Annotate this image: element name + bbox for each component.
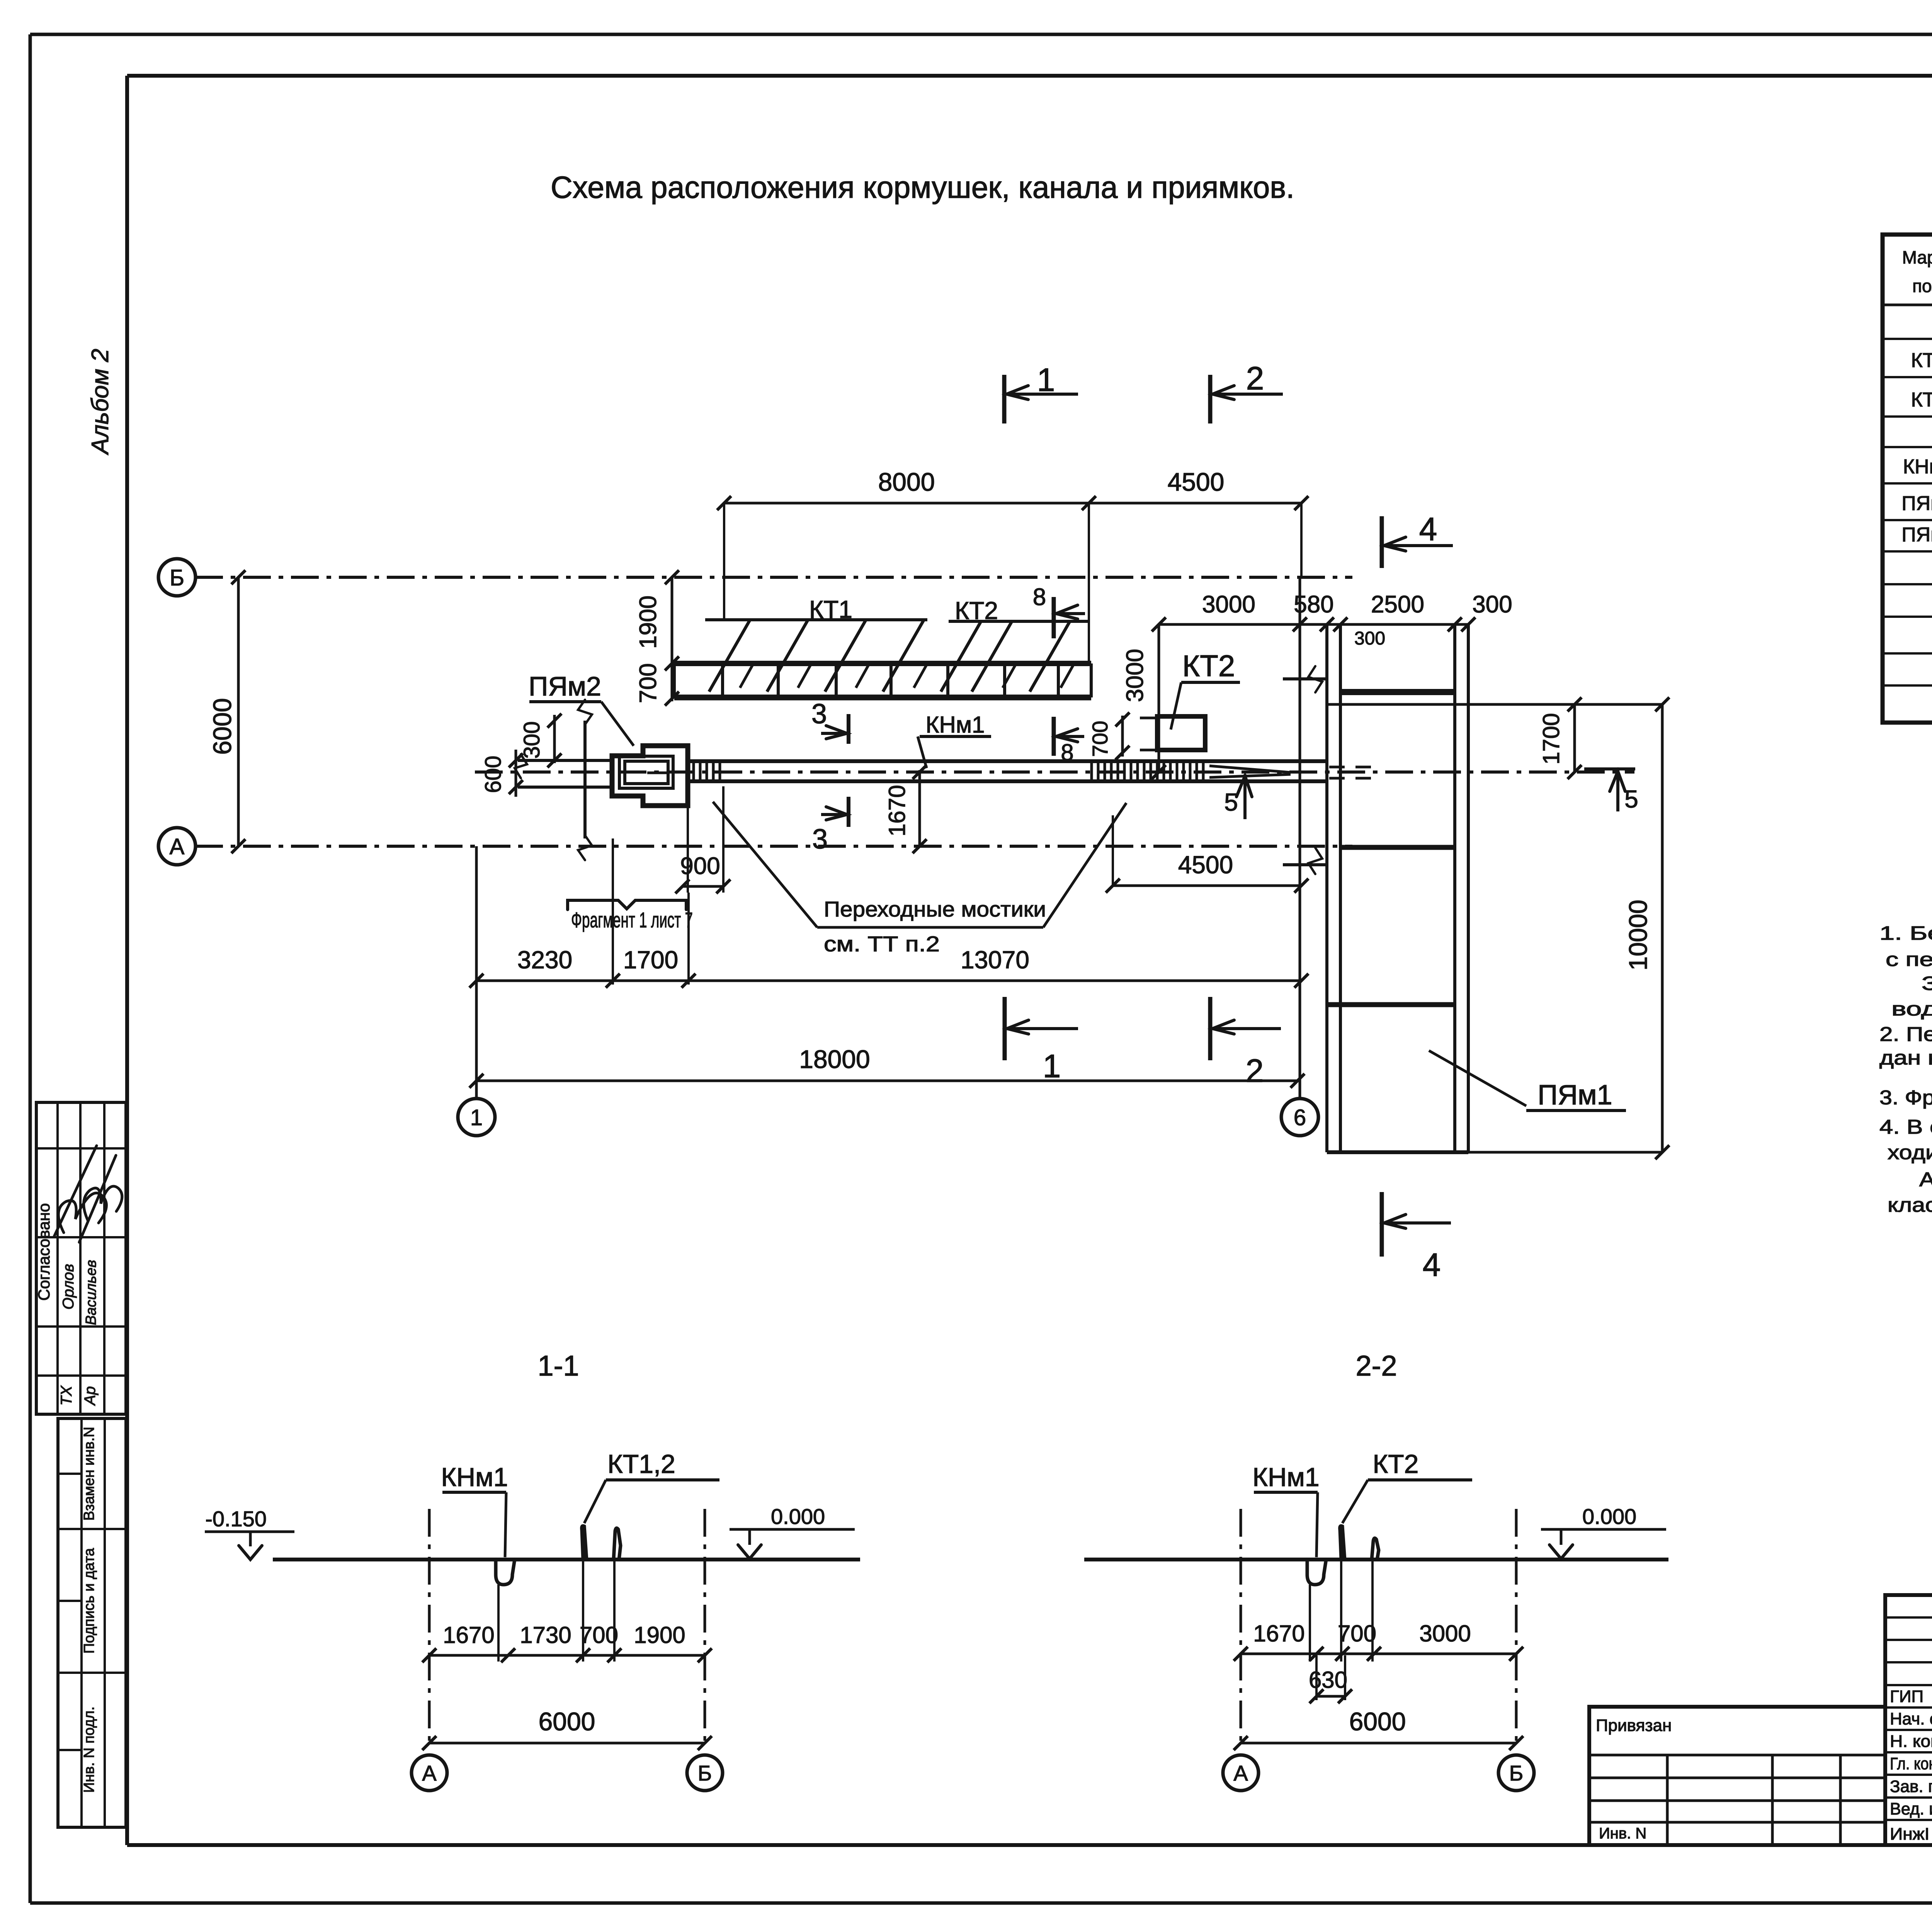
svg-text:3: 3 <box>811 699 827 730</box>
svg-text:630: 630 <box>1309 1667 1347 1693</box>
svg-text:1670: 1670 <box>443 1622 494 1648</box>
svg-text:Подпись и дата: Подпись и дата <box>81 1548 97 1653</box>
svg-text:1: 1 <box>470 1105 483 1130</box>
svg-text:ИнжI кат.: ИнжI кат. <box>1890 1825 1932 1844</box>
svg-text:700: 700 <box>580 1622 618 1648</box>
svg-text:-0.150: -0.150 <box>205 1507 267 1531</box>
svg-text:5: 5 <box>1224 788 1238 816</box>
svg-text:Вед. инж.: Вед. инж. <box>1890 1799 1932 1818</box>
svg-text:2: 2 <box>1246 360 1264 396</box>
svg-text:5: 5 <box>1624 785 1638 813</box>
svg-text:0.000: 0.000 <box>1582 1504 1636 1529</box>
svg-text:Б: Б <box>170 565 184 590</box>
svg-text:поз.: поз. <box>1912 276 1932 296</box>
svg-text:600: 600 <box>481 756 506 793</box>
svg-text:Н. контр.: Н. контр. <box>1890 1732 1932 1751</box>
svg-text:Взамен инв.N: Взамен инв.N <box>81 1427 97 1520</box>
svg-text:ТХ: ТХ <box>58 1385 75 1405</box>
svg-text:4: 4 <box>1423 1247 1441 1283</box>
svg-text:Схема расположения кормушек,: Схема расположения кормушек, канала и пр… <box>551 170 1294 204</box>
svg-text:КНм1: КНм1 <box>1903 456 1932 478</box>
svg-text:Марка: Марка <box>1902 247 1932 267</box>
svg-text:ГИП: ГИП <box>1890 1687 1923 1706</box>
svg-text:1900: 1900 <box>634 1622 685 1648</box>
svg-text:2-2: 2-2 <box>1356 1350 1397 1382</box>
svg-text:3. Фрагмент 1 и разрезы 3: 3. Фрагмент 1 и разрезы 3-3... 5-5, 8-8 … <box>1879 1087 1932 1109</box>
svg-text:1900: 1900 <box>635 595 662 649</box>
svg-text:300: 300 <box>1354 628 1385 649</box>
svg-text:КТ2: КТ2 <box>1182 649 1235 683</box>
svg-text:6: 6 <box>1294 1105 1306 1130</box>
svg-text:см. ТТ п.2: см. ТТ п.2 <box>824 932 940 956</box>
svg-text:КНм1: КНм1 <box>926 712 985 738</box>
svg-text:Заполнение вертикальных швов: Заполнение вертикальных швов между блока… <box>1922 973 1932 994</box>
svg-text:ПЯм1: ПЯм1 <box>1901 492 1932 515</box>
svg-text:6000: 6000 <box>1349 1707 1406 1736</box>
svg-text:1-1: 1-1 <box>538 1350 579 1382</box>
svg-text:1: 1 <box>1037 362 1055 398</box>
svg-text:КНм1: КНм1 <box>1252 1463 1319 1492</box>
svg-text:1670: 1670 <box>1253 1621 1304 1646</box>
svg-text:КТ1: КТ1 <box>1911 349 1932 372</box>
svg-text:1: 1 <box>1043 1048 1061 1084</box>
svg-text:4500: 4500 <box>1168 468 1225 496</box>
svg-text:8: 8 <box>1033 584 1046 611</box>
svg-text:3230: 3230 <box>517 946 572 974</box>
svg-text:Переходные мостики: Переходные мостики <box>824 897 1046 921</box>
svg-text:Анкерные болты в колодцах: Анкерные болты в колодцах после их устан… <box>1919 1168 1932 1191</box>
svg-text:класса В 15 на мелкозерн: класса В 15 на мелкозернистом заполнител… <box>1888 1194 1932 1216</box>
svg-text:КТ2: КТ2 <box>955 597 998 624</box>
svg-text:300: 300 <box>1472 591 1512 618</box>
svg-text:ходимодимо втрамбовать слой: ходимодимо втрамбовать слой щебня или гр… <box>1888 1141 1932 1164</box>
svg-text:1. Бетонные блоки необходи: 1. Бетонные блоки необходимо укладывать … <box>1879 922 1932 944</box>
svg-text:Зав. гр.: Зав. гр. <box>1890 1777 1932 1796</box>
svg-text:Альбом 2: Альбом 2 <box>87 349 114 456</box>
svg-text:Нач. отд: Нач. отд <box>1890 1709 1932 1728</box>
svg-text:900: 900 <box>680 853 720 879</box>
svg-text:1670: 1670 <box>884 785 910 836</box>
svg-text:Б: Б <box>698 1761 712 1785</box>
svg-text:4500: 4500 <box>1178 851 1233 879</box>
svg-text:3000: 3000 <box>1202 591 1255 618</box>
svg-text:водить бетоном класса В 7,5: водить бетоном класса В 7,5 ; F 150 <box>1891 998 1932 1020</box>
svg-text:КТ1,2: КТ1,2 <box>607 1449 675 1479</box>
svg-text:ПЯм2: ПЯм2 <box>529 671 601 701</box>
svg-text:Инв. N: Инв. N <box>1599 1825 1646 1842</box>
svg-text:1700: 1700 <box>1538 713 1564 764</box>
svg-text:1730: 1730 <box>520 1622 571 1648</box>
svg-text:Привязан: Привязан <box>1596 1716 1672 1735</box>
svg-text:4. В основание фундаментов: 4. В основание фундаментов под оборудова… <box>1879 1116 1932 1138</box>
svg-text:2. Переходные мостики изго: 2. Переходные мостики изготовить по мест… <box>1879 1023 1932 1046</box>
svg-text:3: 3 <box>812 824 828 855</box>
svg-text:8000: 8000 <box>878 468 935 496</box>
svg-text:КТ2: КТ2 <box>1373 1449 1419 1479</box>
svg-text:А: А <box>1233 1761 1248 1785</box>
svg-text:3000: 3000 <box>1122 649 1148 702</box>
svg-text:КТ2: КТ2 <box>1911 389 1932 411</box>
svg-text:2: 2 <box>1246 1053 1264 1089</box>
svg-text:700: 700 <box>1088 721 1112 757</box>
svg-text:4: 4 <box>1419 511 1437 547</box>
svg-text:Гл. констр.: Гл. констр. <box>1890 1754 1932 1773</box>
svg-text:700: 700 <box>635 663 662 703</box>
svg-text:3000: 3000 <box>1419 1621 1471 1646</box>
svg-text:КТ1: КТ1 <box>809 595 852 623</box>
svg-text:1700: 1700 <box>623 946 678 974</box>
svg-text:КНм1: КНм1 <box>441 1463 508 1492</box>
svg-text:18000: 18000 <box>799 1045 870 1073</box>
svg-text:700: 700 <box>1338 1621 1376 1646</box>
svg-text:580: 580 <box>1294 591 1333 618</box>
svg-text:Васильев: Васильев <box>83 1260 99 1325</box>
svg-text:Орлов: Орлов <box>60 1264 77 1310</box>
svg-text:10000: 10000 <box>1624 900 1652 971</box>
svg-text:ПЯм2: ПЯм2 <box>1901 524 1932 546</box>
svg-text:Ар: Ар <box>82 1386 99 1406</box>
svg-text:13070: 13070 <box>961 946 1029 974</box>
svg-text:с перевязкой вертикальных: с перевязкой вертикальных швов на 250мм.… <box>1886 949 1932 970</box>
svg-text:дан на листе 7 ).: дан на листе 7 ). <box>1879 1047 1932 1069</box>
svg-text:ПЯм1: ПЯм1 <box>1537 1080 1612 1111</box>
svg-text:А: А <box>422 1761 437 1785</box>
svg-text:6000: 6000 <box>539 1707 595 1736</box>
svg-text:0.000: 0.000 <box>771 1504 825 1529</box>
svg-text:Согласовано: Согласовано <box>35 1203 53 1301</box>
svg-text:6000: 6000 <box>208 698 236 755</box>
svg-text:Б: Б <box>1509 1761 1524 1785</box>
svg-text:Фрагмент 1 лист 7: Фрагмент 1 лист 7 <box>571 908 693 932</box>
svg-text:2500: 2500 <box>1371 591 1424 618</box>
svg-text:А: А <box>170 834 185 859</box>
svg-text:300: 300 <box>519 721 544 759</box>
svg-text:Инв. N подл.: Инв. N подл. <box>81 1706 97 1793</box>
